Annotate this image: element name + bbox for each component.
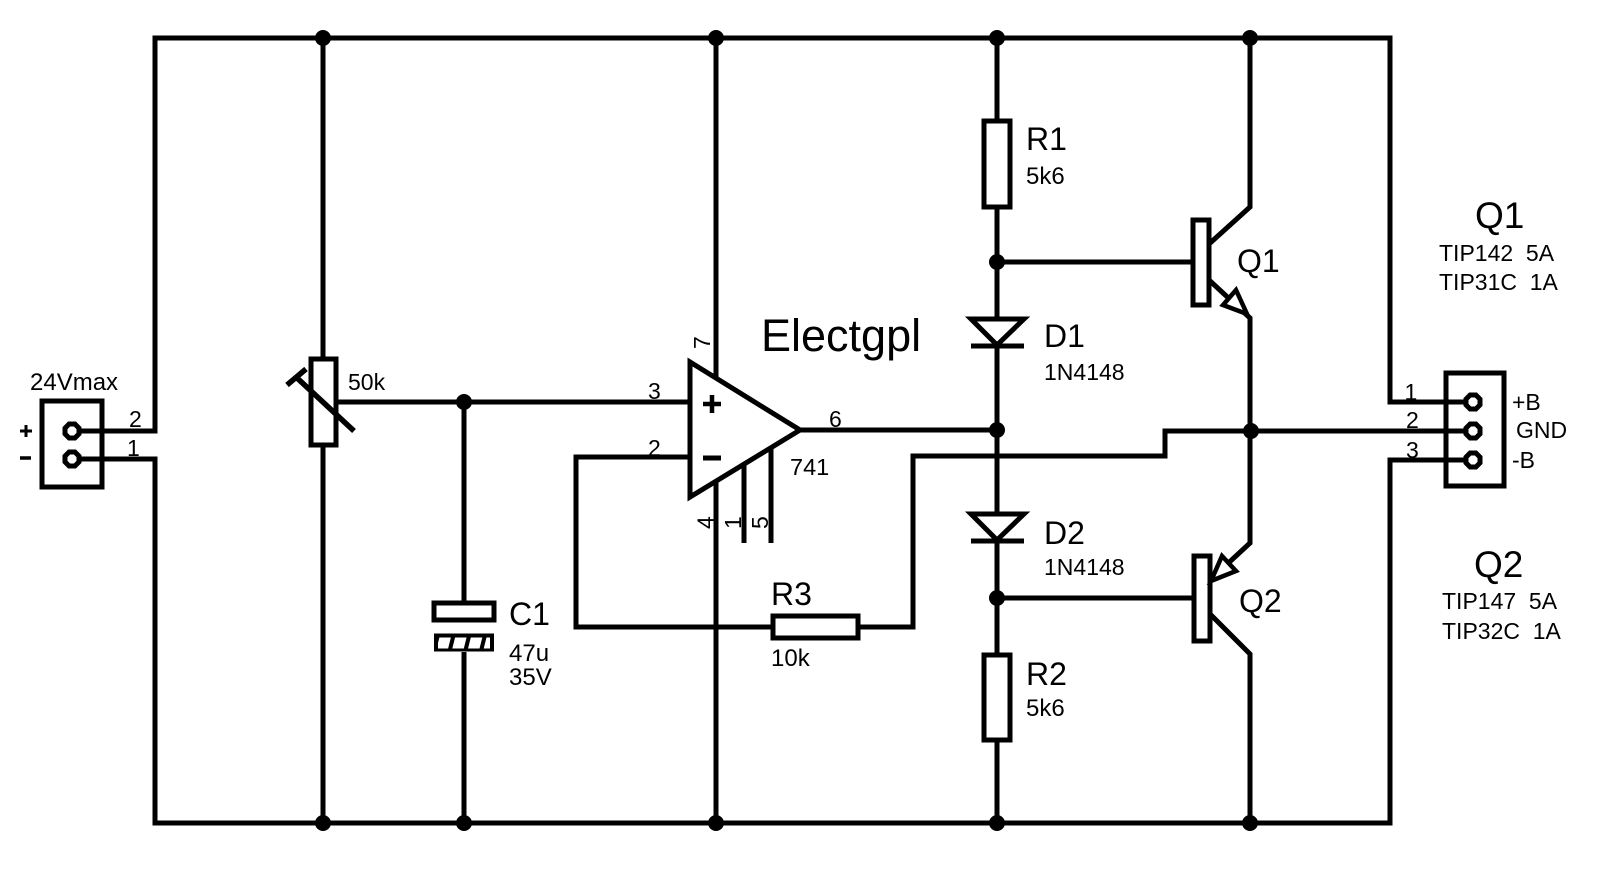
- svg-text:Electgpl: Electgpl: [761, 310, 921, 361]
- wire V+ rail: input pin2 up, top rail, down right side to output pin1: [81, 38, 1466, 431]
- wire D2 to R2: [995, 541, 1000, 655]
- svg-text:GND: GND: [1516, 417, 1567, 443]
- potentiometer RV1 50k: [311, 359, 336, 445]
- wire V- rail: input pin1, left drop, bottom rail, up right side to output pin3: [81, 459, 1466, 823]
- wire pot bottom branch: [321, 445, 326, 823]
- diode D1: [971, 319, 1024, 346]
- wire D1 to D2: [995, 346, 1000, 514]
- wire C1 top lead: [462, 402, 467, 603]
- wire op-amp pin7 segment inside triangle: [714, 360, 719, 378]
- svg-text:1: 1: [1405, 379, 1418, 405]
- potentiometer arrow: [287, 369, 354, 431]
- svg-text:1N4148: 1N4148: [1044, 554, 1125, 580]
- wire top rail to R1: [995, 38, 1000, 121]
- svg-text:2: 2: [1406, 407, 1419, 433]
- svg-text:1: 1: [720, 516, 746, 529]
- wire Q1 emitter / Q2 emitter vertical: [1209, 280, 1250, 580]
- node emitters / GND out: [1243, 423, 1259, 439]
- minus polarity mark: [20, 456, 31, 460]
- resistor R1: [984, 121, 1010, 207]
- Q2 emitter arrow: [1211, 556, 1236, 581]
- wire R3 right to GND node (feedback): [858, 431, 1466, 627]
- resistor R2: [984, 655, 1010, 740]
- wire Q2 base: [997, 596, 1194, 601]
- node Q2 collector rail: [1242, 815, 1258, 831]
- svg-text:5k6: 5k6: [1026, 695, 1065, 722]
- node op-amp out / diodes: [989, 422, 1005, 438]
- svg-text:3: 3: [1406, 437, 1419, 463]
- svg-text:TIP31C 1A: TIP31C 1A: [1439, 269, 1559, 295]
- svg-text:Q2: Q2: [1239, 583, 1282, 619]
- wire Q1 base: [997, 260, 1193, 265]
- diode D2: [971, 514, 1024, 541]
- svg-text:R1: R1: [1026, 121, 1067, 157]
- node pot top: [315, 30, 331, 46]
- wire op-amp pin4 to bottom rail: [714, 481, 719, 823]
- node R1-D1-Q1 base: [989, 254, 1005, 270]
- wire Q2 collector: [1210, 614, 1250, 823]
- svg-text:C1: C1: [509, 596, 550, 632]
- svg-text:741: 741: [790, 454, 829, 480]
- wire op-amp pin5 stub: [769, 448, 774, 543]
- svg-text:1: 1: [127, 435, 140, 461]
- node D2-R2-Q2 base: [989, 590, 1005, 606]
- svg-text:50k: 50k: [348, 369, 386, 395]
- wire R1 to D1: [995, 207, 1000, 319]
- svg-text:D1: D1: [1044, 318, 1085, 354]
- transistor Q2: [1194, 556, 1210, 641]
- svg-text:3: 3: [648, 378, 661, 404]
- svg-text:Q2: Q2: [1474, 544, 1523, 585]
- node Q1 collector rail: [1242, 30, 1258, 46]
- wire op-amp pin1 stub: [742, 464, 747, 543]
- svg-text:R2: R2: [1026, 656, 1067, 692]
- node pin7 rail: [708, 30, 724, 46]
- wire C1 bottom lead: [462, 652, 467, 823]
- node R1 rail: [989, 30, 1005, 46]
- Q1 emitter arrow: [1223, 290, 1247, 314]
- svg-text:-B: -B: [1512, 447, 1535, 473]
- connector J2 output: [1446, 373, 1504, 486]
- svg-text:6: 6: [829, 406, 842, 432]
- wire Q1 collector: [1209, 38, 1250, 244]
- svg-text:Q1: Q1: [1237, 243, 1280, 279]
- svg-text:7: 7: [689, 336, 715, 349]
- node wiper / C1 tap: [456, 394, 472, 410]
- svg-text:10k: 10k: [771, 645, 811, 672]
- wire op-amp pin6 output: [800, 428, 997, 433]
- svg-text:TIP147 5A: TIP147 5A: [1442, 588, 1558, 614]
- wire op-amp pin7 to top rail: [714, 38, 719, 362]
- svg-text:5k6: 5k6: [1026, 163, 1065, 190]
- svg-text:24Vmax: 24Vmax: [30, 369, 118, 396]
- op-amp U1 741: [690, 362, 800, 497]
- svg-text:35V: 35V: [509, 664, 552, 691]
- svg-text:1N4148: 1N4148: [1044, 359, 1125, 385]
- svg-text:2: 2: [129, 406, 142, 432]
- transistor Q1: [1193, 220, 1209, 305]
- op-amp - input mark: [703, 456, 721, 461]
- svg-text:2: 2: [648, 435, 661, 461]
- plus polarity mark: [20, 425, 32, 437]
- svg-text:TIP142 5A: TIP142 5A: [1439, 240, 1555, 266]
- svg-text:R3: R3: [771, 576, 812, 612]
- svg-text:47u: 47u: [509, 640, 549, 667]
- svg-text:4: 4: [693, 516, 719, 529]
- node R2 rail: [989, 815, 1005, 831]
- wire op-amp pin2 to R3 left: [576, 457, 773, 627]
- svg-text:TIP32C 1A: TIP32C 1A: [1442, 618, 1562, 644]
- op-amp + input mark: [703, 395, 721, 413]
- svg-text:Q1: Q1: [1475, 195, 1524, 236]
- wire pot top branch: [321, 38, 326, 359]
- node pin4 rail: [708, 815, 724, 831]
- svg-text:D2: D2: [1044, 515, 1085, 551]
- wire pot wiper to op-amp pin3: [336, 400, 690, 405]
- svg-text:+B: +B: [1512, 389, 1541, 415]
- node pot bottom rail: [315, 815, 331, 831]
- svg-text:5: 5: [747, 516, 773, 529]
- wire R2 to bottom rail: [995, 740, 1000, 823]
- node C1 bottom rail: [456, 815, 472, 831]
- resistor R3: [773, 616, 858, 638]
- capacitor C1: [434, 603, 498, 652]
- connector J1 24Vmax: [42, 401, 102, 487]
